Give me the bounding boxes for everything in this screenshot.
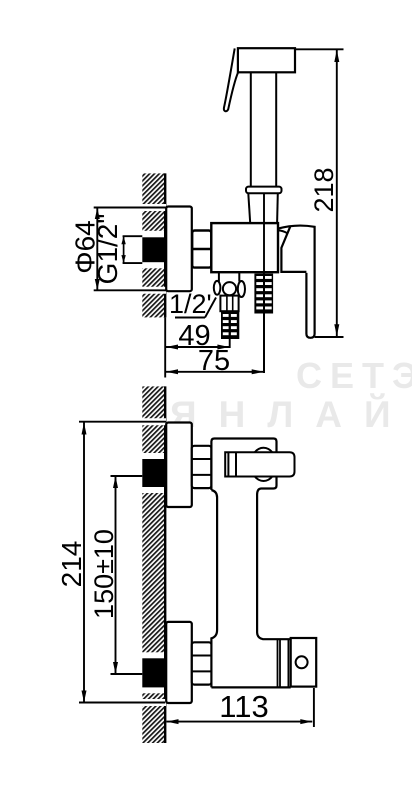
- lower body bottom edge: [211, 686, 290, 688]
- handle shaft left line: [250, 72, 252, 186]
- label 1/2' underline: [175, 317, 205, 319]
- dimension line 75: [166, 371, 264, 373]
- svg-text:75: 75: [198, 345, 230, 377]
- cone left edge: [248, 193, 250, 223]
- sprayer head: [238, 48, 295, 72]
- svg-text:1/2': 1/2': [169, 289, 212, 319]
- arrow down 150: [113, 662, 118, 674]
- dim ext line bottom (214): [79, 702, 165, 704]
- halo for phi64 lower ext: [141, 287, 166, 294]
- hose outlet nut vertical lines: [277, 639, 279, 687]
- left outlet stem lines: [218, 272, 220, 281]
- svg-text:218: 218: [309, 167, 339, 212]
- arrow down 214: [82, 691, 87, 703]
- lever hub fillet: [278, 230, 287, 233]
- wall (hatched strip, top view): [142, 173, 165, 317]
- lower escutcheon plate: [166, 622, 192, 703]
- holder bar cylinder: [225, 452, 294, 476]
- lower mount black square: [142, 658, 165, 687]
- lever arm bottom edge: [281, 227, 306, 272]
- arrow right 113: [300, 719, 312, 724]
- svg-text:G1/2": G1/2": [92, 214, 123, 285]
- dim ext line top (214): [79, 421, 166, 423]
- dim ext line bottom (218): [315, 336, 344, 338]
- arrow left 113: [167, 719, 179, 724]
- left outlet threaded nipple: [221, 311, 239, 339]
- hex nut facet line: [192, 248, 210, 250]
- arrow up 214: [82, 423, 87, 435]
- dimension line 150: [115, 476, 117, 674]
- halo for 214 top ext: [141, 418, 166, 425]
- dimension line 218: [336, 50, 338, 336]
- wall white gap around upper mount: [141, 453, 166, 493]
- dim ext line top (218): [295, 48, 344, 50]
- svg-text:150±10: 150±10: [89, 529, 119, 619]
- holder ring (ellipse behind cylinder): [251, 448, 277, 481]
- handle flange ring: [246, 187, 282, 194]
- upper mount black square: [142, 459, 165, 487]
- svg-text:ЯНЛАЙ: ЯНЛАЙ: [170, 393, 412, 435]
- arrow up 150: [113, 476, 118, 488]
- holder bar collar lines: [227, 452, 229, 476]
- arrow right 75: [252, 369, 264, 374]
- handle shaft right line: [275, 72, 277, 186]
- dimension line 49: [166, 346, 229, 348]
- upper hex nut: [192, 446, 212, 488]
- left outlet left cap: [214, 281, 221, 295]
- wall (hatched strip, front view): [142, 386, 165, 743]
- hose connection hole: [296, 656, 308, 668]
- svg-text:113: 113: [219, 689, 268, 724]
- wall white gap around inlet: [141, 231, 166, 268]
- cone right edge: [276, 193, 279, 223]
- svg-text:СЕТЭ: СЕТЭ: [296, 355, 412, 396]
- dim ext line upper (150): [111, 475, 143, 477]
- wall right edge line: [164, 173, 166, 317]
- mixer lever handle (right side): [278, 226, 315, 338]
- arrow left 75: [166, 369, 178, 374]
- hose outlet threaded stud: [254, 274, 273, 314]
- inlet ext line lower (G1/2): [123, 262, 143, 264]
- dim ext line lower (150): [111, 673, 143, 675]
- arrow left 49: [166, 345, 178, 350]
- valve body (top view): [211, 223, 278, 272]
- escutcheon plate (side view): [166, 207, 192, 292]
- lower hex nut: [192, 642, 212, 684]
- trigger lever: [224, 48, 238, 111]
- dimension line 113: [167, 721, 313, 723]
- dimension line phi64: [96, 208, 98, 290]
- left outlet nut: [220, 296, 238, 312]
- upper hex nut facet lines: [192, 458, 211, 460]
- dim ext line right (113): [313, 688, 315, 727]
- wall right edge line (front view): [164, 386, 166, 743]
- inlet ext line upper (G1/2): [123, 235, 143, 237]
- arrow down 218: [334, 324, 339, 336]
- hose connection square: [291, 638, 317, 687]
- G1/2 dimension line with small arrows: [123, 236, 125, 263]
- hex nut (side view, behind valve): [192, 231, 211, 268]
- vertical bar (body column): [211, 490, 217, 687]
- label 1/2' leader: [205, 298, 216, 318]
- arrow up phi64: [95, 208, 100, 219]
- faucet body upper block: [211, 439, 276, 495]
- arrow up 218: [334, 50, 339, 62]
- dim ext line (top of escutcheon, phi64 upper): [94, 207, 167, 209]
- wall white gap around lower mount: [141, 652, 166, 693]
- inlet black square (wall penetration): [142, 237, 165, 262]
- hose line below stud: [263, 274, 265, 373]
- left outlet nut facet lines: [226, 296, 228, 312]
- left outlet center line: [229, 339, 231, 348]
- left outlet ball circle: [223, 282, 236, 295]
- arrow right 49: [217, 345, 229, 350]
- dim ext line (bottom of escutcheon, phi64 lower): [94, 289, 167, 291]
- arrow down phi64: [95, 279, 100, 290]
- svg-text:214: 214: [56, 541, 87, 588]
- hose center line (through body): [263, 193, 265, 275]
- dimension line 214: [83, 423, 85, 703]
- bar right edge: [257, 495, 291, 640]
- halo for phi64 upper ext: [141, 204, 166, 211]
- lower hex nut facet lines: [192, 655, 211, 657]
- halo for 214 bottom ext: [141, 699, 166, 706]
- left outlet right cap: [238, 281, 245, 297]
- upper escutcheon plate: [166, 423, 192, 508]
- left ext line (wall face): [164, 317, 166, 377]
